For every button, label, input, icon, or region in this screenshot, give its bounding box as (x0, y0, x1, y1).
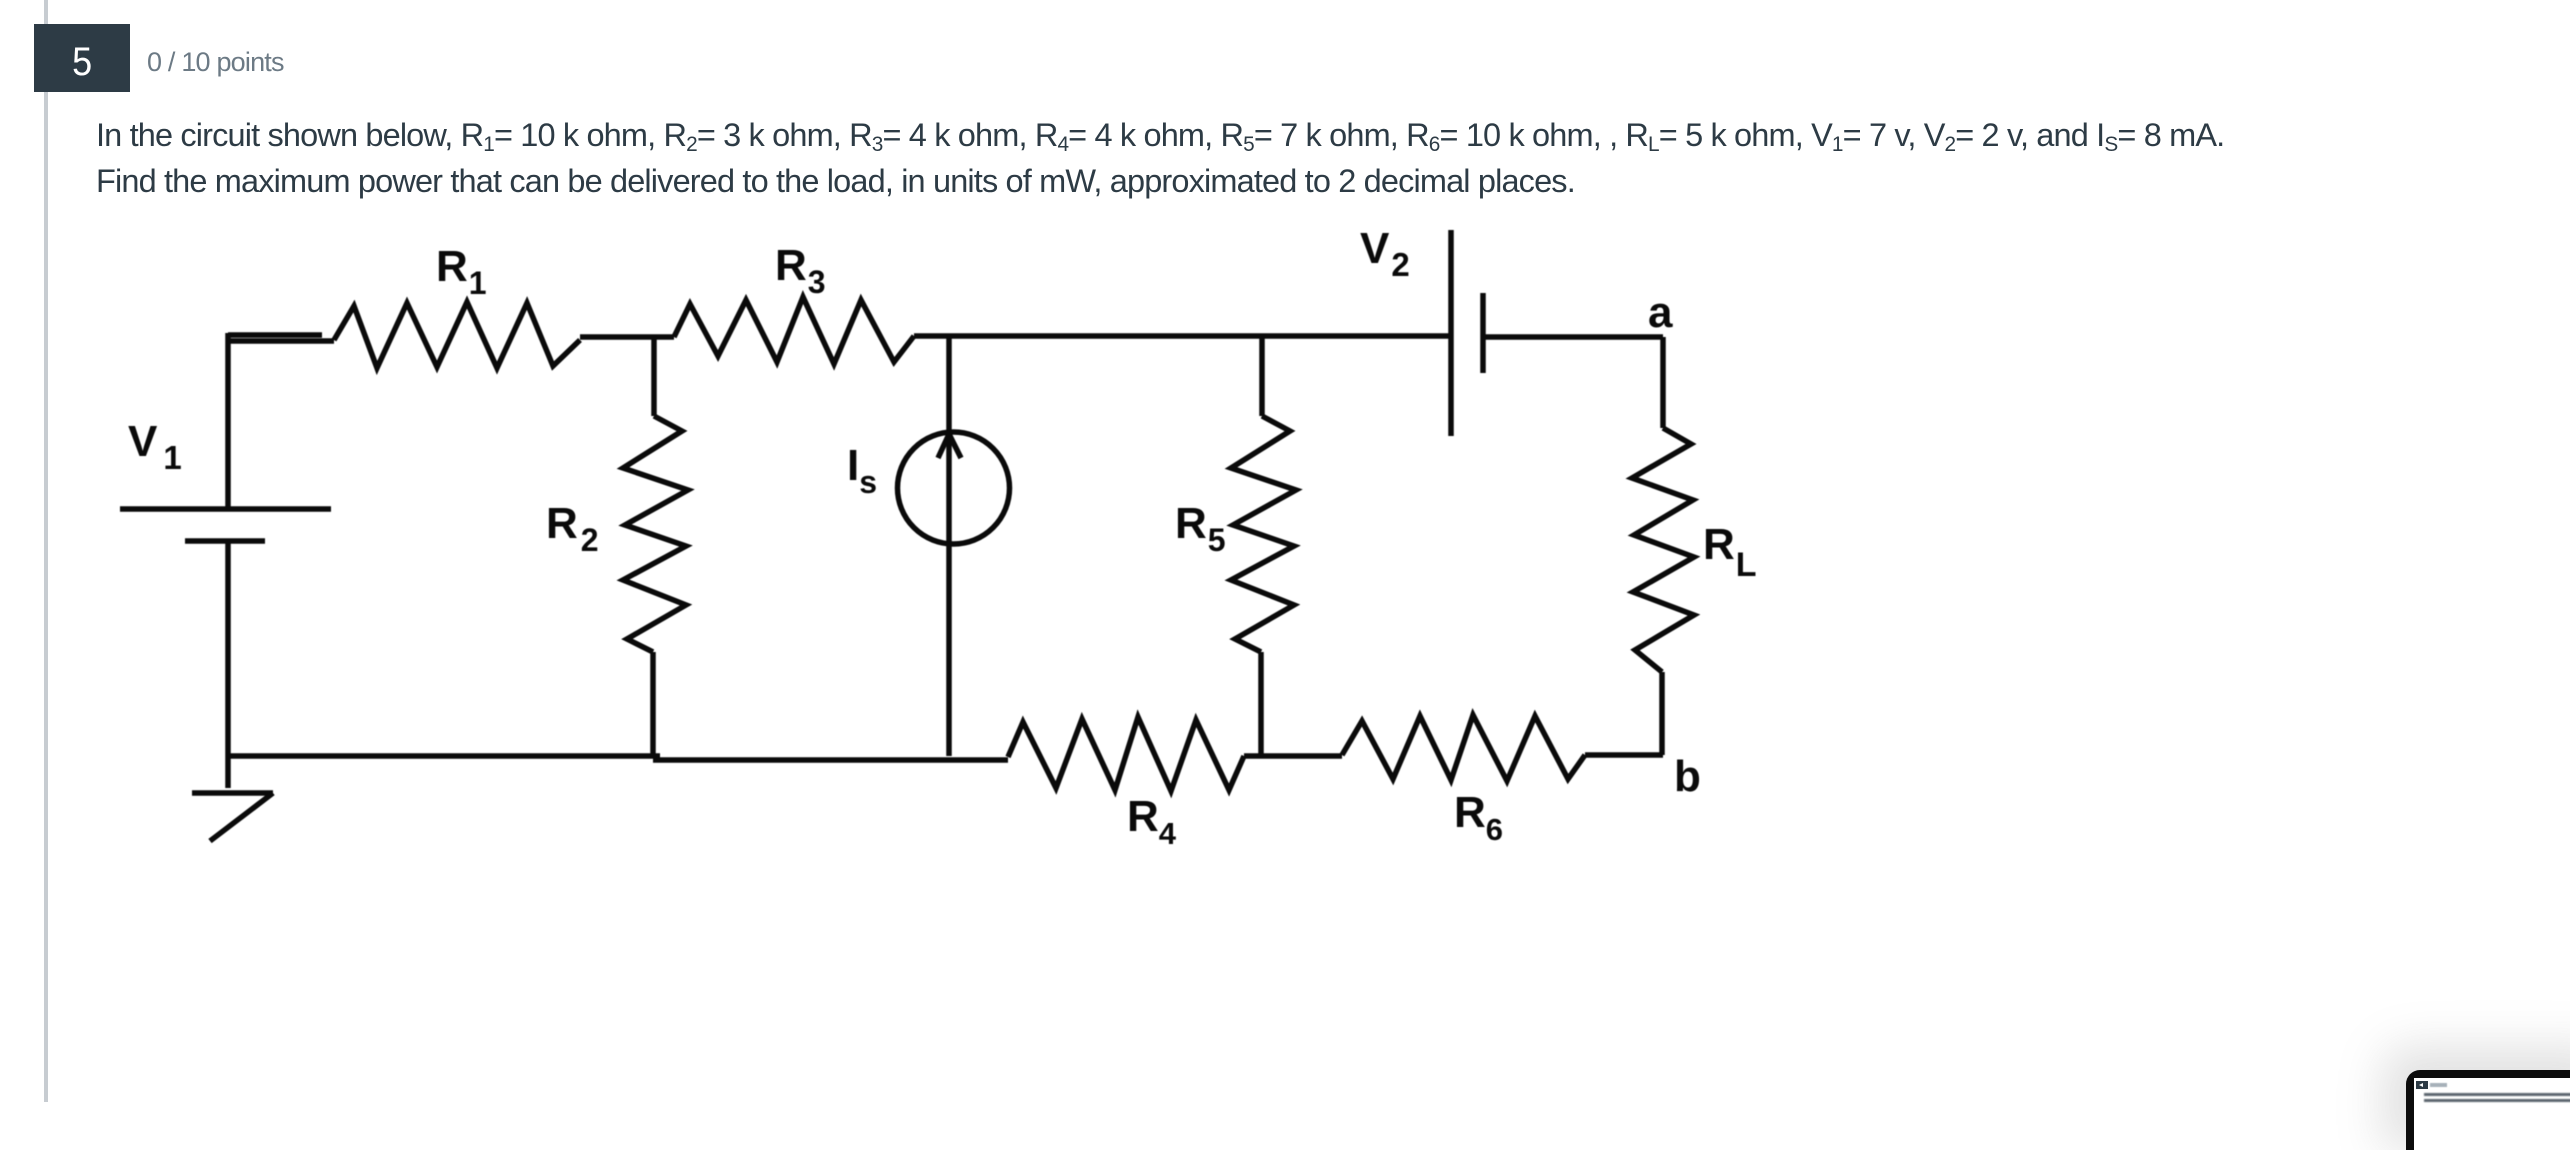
battery V2 plate long (1448, 230, 1454, 436)
wire bottom horizontal right part (653, 757, 1008, 763)
resistor R2 (623, 416, 688, 652)
svg-text:a: a (1648, 288, 1673, 337)
svg-text:R5: R5 (1175, 499, 1226, 558)
wire V2 to node a corner (1483, 334, 1663, 340)
current source Is circle (898, 432, 1010, 544)
svg-text:V2: V2 (1360, 224, 1410, 283)
svg-text:V1: V1 (128, 417, 182, 476)
wire bottom horizontal (228, 753, 660, 759)
left border line (44, 0, 48, 1102)
ground (192, 793, 273, 841)
wire R6 to node b (1585, 752, 1663, 758)
wire Is top stub (946, 337, 952, 432)
battery V2 plate short (1480, 293, 1486, 373)
question text (96, 112, 2224, 204)
resistor R5 (1231, 416, 1296, 652)
resistor R4 (1008, 717, 1244, 791)
battery V1 plate short (185, 538, 265, 544)
wire R3 to V2 (914, 333, 1449, 339)
wire R4 to R6 (1244, 753, 1342, 759)
wire R5 bottom stub (1258, 652, 1264, 756)
wire Is bottom stub (946, 545, 952, 756)
svg-text:b: b (1674, 752, 1701, 801)
points (147, 48, 284, 77)
resistor R6 (1342, 715, 1585, 781)
battery V1 plate long (120, 506, 331, 512)
current source arrow (938, 434, 961, 545)
wire RL bottom stub (1659, 672, 1665, 755)
wire between R1 and R3 (580, 334, 674, 340)
svg-text:R6: R6 (1454, 788, 1503, 847)
wire left branch vertical (225, 333, 231, 509)
svg-text:R3: R3 (775, 241, 826, 300)
svg-text:RL: RL (1703, 520, 1757, 584)
wire V1 to bottom (225, 541, 231, 788)
wire top-left horizontal overlap stroke (228, 332, 322, 338)
wire top-left horizontal (226, 338, 334, 344)
bottom-right mini overlay (2406, 1070, 2570, 1150)
wire R2 bottom stub (650, 652, 656, 756)
svg-text:R1: R1 (436, 242, 487, 301)
wire R5 top stub (1259, 337, 1265, 416)
svg-text:Is: Is (847, 441, 877, 500)
wire node a vertical (1660, 337, 1666, 428)
resistor RL (1632, 428, 1694, 672)
question number box (34, 24, 130, 92)
svg-text:R4: R4 (1127, 792, 1177, 851)
resistor R1 (334, 302, 580, 368)
svg-text:R2: R2 (546, 499, 599, 558)
wire R2 top stub (651, 337, 657, 416)
resistor R3 (674, 297, 914, 364)
